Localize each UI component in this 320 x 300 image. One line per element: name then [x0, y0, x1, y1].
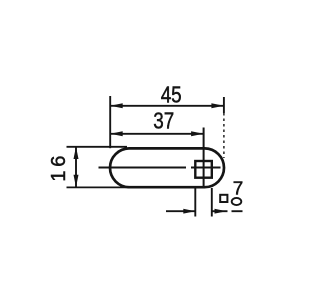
svg-text:7: 7	[233, 177, 244, 198]
svg-text:45: 45	[161, 81, 182, 107]
svg-text:37: 37	[153, 108, 174, 134]
